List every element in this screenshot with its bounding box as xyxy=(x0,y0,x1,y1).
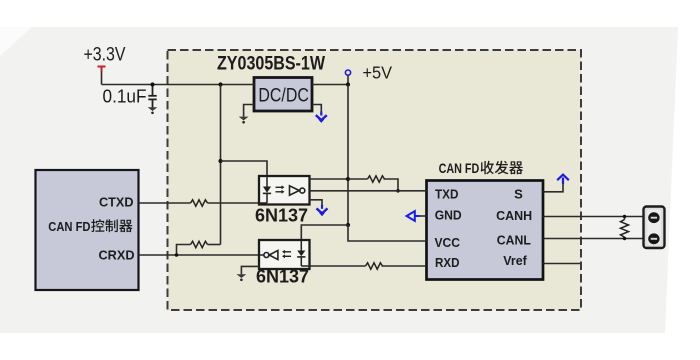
svg-text:TXD: TXD xyxy=(435,186,459,201)
digital ground arrow (blue) opto1 xyxy=(317,205,328,216)
svg-text:CAN FD: CAN FD xyxy=(48,219,90,234)
wire S pin xyxy=(543,184,563,192)
wire CTXD to opto1 xyxy=(139,202,260,204)
optocoupler U4 box xyxy=(259,176,310,205)
svg-text:VCC: VCC xyxy=(435,235,461,250)
wire CRXD from opto2 xyxy=(139,254,260,256)
DC/DC converter U1 box xyxy=(254,78,312,112)
opto1 buffer xyxy=(290,186,305,195)
wire +3.3V rail to DC/DC xyxy=(102,84,255,86)
svg-text:6N137: 6N137 xyxy=(256,266,309,286)
opto2 buffer xyxy=(264,250,278,259)
svg-text:Vref: Vref xyxy=(503,253,527,268)
svg-text:+3.3V: +3.3V xyxy=(84,45,126,66)
junction node +5V rail lower xyxy=(346,223,350,227)
svg-text:ZY0305BS-1W: ZY0305BS-1W xyxy=(217,54,325,75)
wire DC/DC output to +5V node xyxy=(312,84,348,86)
svg-text:0.1uF: 0.1uF xyxy=(103,86,147,107)
svg-text:CANL: CANL xyxy=(497,233,531,248)
junction node R5/CANL xyxy=(623,237,626,240)
wire opto1 VCC pin to +5V rail xyxy=(310,178,349,180)
connector J1 xyxy=(644,207,665,249)
transceiver title CAN FD收发器 xyxy=(439,160,523,176)
transceiver U2 box xyxy=(427,181,544,280)
opto1 LED xyxy=(259,176,271,203)
wire rail to opto2 anode xyxy=(301,225,348,240)
svg-text:DC/DC: DC/DC xyxy=(258,84,309,106)
junction node opto1 anode xyxy=(218,159,222,163)
svg-text:6N137: 6N137 xyxy=(255,206,308,226)
+5V pin circle xyxy=(345,70,350,75)
junction node at C1 xyxy=(150,82,154,86)
module box ZY0305BS-1W (dashed) xyxy=(168,50,582,310)
ground DC/DC left xyxy=(239,117,249,124)
wire R3 right lead down to TXD xyxy=(384,179,399,191)
ground opto2 xyxy=(237,274,247,281)
resistor R5 (termination) xyxy=(621,217,629,239)
resistor R4 (RXD series) xyxy=(366,263,383,269)
junction node bus/+3.3V xyxy=(218,82,222,86)
wire opto1 ground pin xyxy=(310,200,323,205)
wire CANL xyxy=(543,238,644,240)
wire +5V rail vertical xyxy=(347,85,349,226)
optocoupler U5 box xyxy=(259,240,310,269)
wire DC/DC right ground xyxy=(312,105,321,113)
resistor R3 (TXD pull-up) xyxy=(368,176,385,182)
wire rail to VCC pin xyxy=(348,225,427,241)
resistor R1 (CTXD series) xyxy=(191,200,208,206)
opto2 LED xyxy=(297,240,309,266)
capacitor C1 0.1uF xyxy=(148,85,156,108)
svg-text:GND: GND xyxy=(435,208,462,223)
opto1 light arrows xyxy=(276,185,285,193)
junction node R2/CRXD xyxy=(175,253,179,257)
svg-text:CAN FD: CAN FD xyxy=(439,160,480,176)
wire R2 right lead from bus xyxy=(208,244,221,246)
svg-text:CRXD: CRXD xyxy=(99,248,135,263)
wire R2 left lead down to CRXD line xyxy=(177,245,191,256)
resistor R2 (CRXD pull-up) xyxy=(191,241,208,247)
power +3.3V symbol xyxy=(98,67,106,72)
junction node +5V xyxy=(346,82,350,86)
wire GND stub xyxy=(415,215,427,217)
wire Vref stub xyxy=(543,263,580,265)
controller label CAN FD控制器 xyxy=(48,219,132,234)
wire DC/DC left ground xyxy=(244,105,254,117)
wire opto1 output to TXD xyxy=(310,190,427,192)
opto2 light arrows xyxy=(282,250,291,258)
wire +5V pin stem xyxy=(347,75,349,84)
wire +3.3V vertical xyxy=(101,71,103,85)
svg-text:S: S xyxy=(514,186,523,201)
photo corner xyxy=(0,27,32,56)
wire CANH xyxy=(543,216,644,218)
opto2 buffer stub xyxy=(259,254,264,256)
svg-text:CANH: CANH xyxy=(496,208,532,223)
svg-text:+5V: +5V xyxy=(363,63,393,83)
net arrow (blue) GND left xyxy=(407,211,420,221)
wire opto2 cathode to R4 xyxy=(310,265,366,267)
wire R4 to RXD xyxy=(382,265,427,267)
svg-text:CTXD: CTXD xyxy=(99,195,134,210)
junction node R5/CANH xyxy=(623,215,626,218)
junction node rail/R3 xyxy=(346,177,350,181)
wire opto1 anode feed xyxy=(221,161,268,176)
junction node R3/TXD xyxy=(396,189,400,193)
wire R3 left lead xyxy=(348,178,368,180)
wire 3.3V bus vertical xyxy=(220,85,222,245)
controller U3 box xyxy=(36,170,139,290)
svg-text:RXD: RXD xyxy=(435,255,460,270)
digital ground arrow (blue) DC/DC right xyxy=(316,112,327,123)
connector terminal 2 xyxy=(648,233,659,244)
ground under C1 xyxy=(148,107,158,114)
connector terminal 1 xyxy=(648,212,659,223)
net arrow (blue) S up xyxy=(557,175,569,184)
wire opto2 ground pin xyxy=(241,266,259,274)
